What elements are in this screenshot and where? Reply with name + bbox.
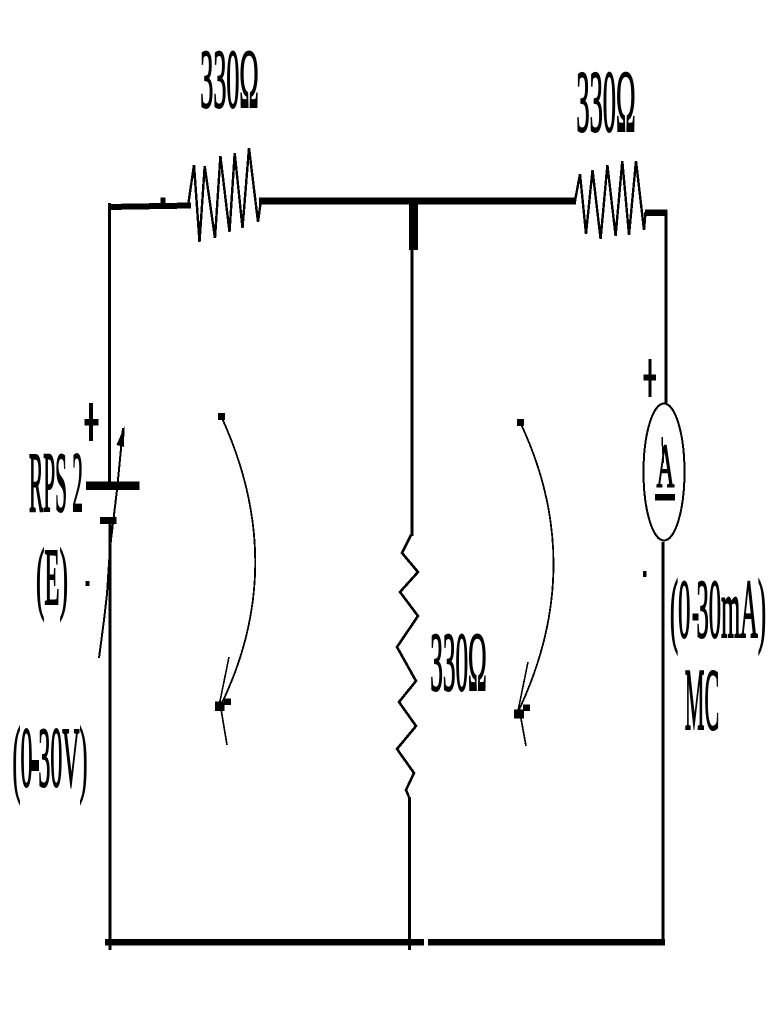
wire middle vertical lower (R3 to bottom) bbox=[408, 797, 411, 950]
resistor R1 330ohm (top-left, zigzag) bbox=[188, 148, 261, 242]
loop current arrow 2 barb bbox=[518, 662, 528, 711]
loop current arrow 2 head bbox=[514, 705, 530, 719]
svg-text:(E): (E) bbox=[36, 532, 68, 621]
loop current arrow 1 barb bbox=[219, 657, 229, 706]
wire left vertical lower (battery to bottom) bbox=[109, 524, 112, 950]
variable source arrow through battery bbox=[99, 428, 123, 658]
svg-text:330Ω: 330Ω bbox=[430, 617, 487, 709]
resistor R2 330ohm (top-right, zigzag) bbox=[575, 161, 646, 239]
variable source arrowhead bbox=[117, 426, 125, 447]
wire top-middle (R1 to R2) bbox=[259, 198, 576, 205]
wire top-left (battery node to R1) bbox=[108, 206, 191, 208]
loop current arrow 2 arc bbox=[518, 422, 554, 712]
loop current arrow 1 head bbox=[215, 699, 231, 712]
wire right vertical upper (corner to ammeter) bbox=[665, 210, 668, 403]
label (0-30V) dash dot bbox=[31, 760, 40, 771]
svg-text:(0 30V): (0 30V) bbox=[12, 710, 87, 805]
wire left vertical upper (top wire to battery) bbox=[108, 203, 111, 482]
junction blob at middle-top bbox=[409, 203, 418, 250]
junction tick on top-left wire bbox=[161, 198, 166, 206]
resistor R3 330ohm (middle, vertical zigzag) bbox=[397, 535, 418, 797]
ammeter U1 ellipse bbox=[644, 404, 685, 541]
wire R2 output to top-right corner bbox=[645, 209, 667, 216]
loop current arrow 1 arc bbox=[220, 416, 255, 707]
loop current arrow 1 (left mesh) start blob bbox=[218, 413, 225, 420]
svg-text:RPS 2: RPS 2 bbox=[29, 434, 83, 530]
ammeter underline bbox=[655, 494, 675, 501]
svg-text:330Ω: 330Ω bbox=[200, 34, 258, 126]
wire bottom right segment bbox=[428, 939, 665, 946]
svg-text:(0 30mA): (0 30mA) bbox=[670, 564, 766, 656]
plus sign at battery bbox=[85, 403, 99, 441]
wire right vertical lower (ammeter to bottom) bbox=[662, 542, 665, 944]
wire bottom left segment bbox=[105, 939, 424, 946]
loop current arrow 1 overshoot bbox=[221, 709, 227, 745]
wire middle vertical upper (top wire to R3) bbox=[411, 203, 414, 536]
minus dot at ammeter bbox=[643, 571, 647, 577]
battery long plate bbox=[86, 482, 140, 491]
battery short plate bbox=[100, 517, 117, 524]
svg-text:MC: MC bbox=[685, 651, 719, 748]
minus dot at battery bbox=[85, 581, 89, 586]
loop current arrow 2 (right mesh) start blob bbox=[517, 419, 524, 426]
plus sign at ammeter bbox=[644, 359, 657, 397]
ammeter A apex line bbox=[662, 437, 664, 463]
label (0-30mA) dash dot bbox=[693, 614, 699, 621]
svg-text:A: A bbox=[657, 433, 675, 501]
svg-text:330Ω: 330Ω bbox=[576, 54, 635, 152]
loop current arrow 2 overshoot bbox=[520, 713, 526, 746]
